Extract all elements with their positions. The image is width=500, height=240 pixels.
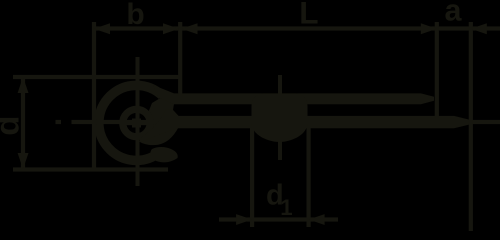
vertical centerline of eye (136, 57, 140, 186)
extension line b right / L left (178, 22, 182, 96)
extension line L right (435, 22, 439, 118)
vertical centerline of section dome (278, 75, 282, 160)
top dimension line (94, 26, 500, 30)
section dome (solid) (252, 94, 308, 142)
arrow L left (182, 23, 198, 34)
extension line d bottom (13, 167, 168, 171)
arrow b left (94, 23, 110, 34)
arrow d1 right pointing left (309, 214, 325, 225)
svg-text:L: L (299, 0, 318, 31)
center mark square (132, 119, 141, 128)
eye hole ring (123, 109, 150, 136)
arrow d down (18, 153, 29, 169)
svg-text:b: b (126, 0, 144, 31)
extension line d1 right (307, 126, 311, 227)
arrow d1 left pointing right (236, 214, 252, 225)
arrow a right outside (471, 23, 487, 34)
extension line d top (13, 75, 182, 79)
extension line b left (92, 22, 96, 170)
svg-text:d: d (0, 116, 25, 136)
neck fill between eye and prongs (140, 97, 179, 145)
svg-text:1: 1 (280, 195, 292, 220)
upper prong (short leg) (153, 85, 434, 104)
eye ring outer C (open lower-right) (99, 85, 162, 160)
lower prong (long leg) (139, 109, 470, 142)
extension line a right (469, 22, 473, 231)
eye wire end lump (150, 147, 177, 162)
extension line d1 left (250, 126, 254, 227)
horizontal axis centerline of pin (72, 120, 500, 124)
arrow L right (421, 23, 437, 34)
d1 dimension line (219, 217, 338, 221)
hole interior cleanup (127, 113, 147, 133)
horizontal axis centerline dash (56, 120, 62, 124)
arrow d up (18, 77, 29, 93)
center mark horizontal tick (121, 121, 154, 125)
svg-text:a: a (445, 0, 463, 28)
d dimension line (left, vertical) (21, 78, 25, 168)
arrow b right (163, 23, 179, 34)
